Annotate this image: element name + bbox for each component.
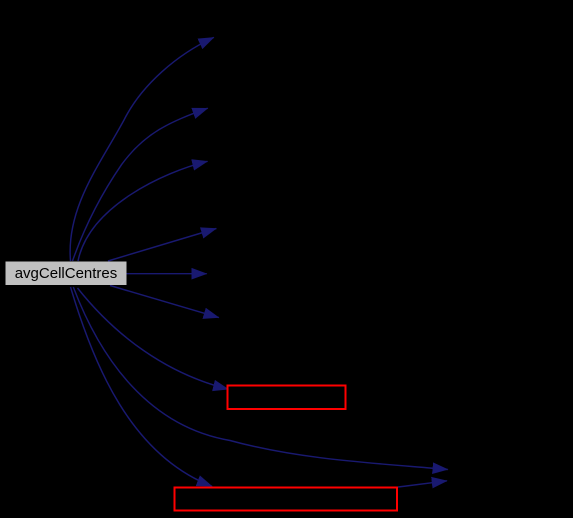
node avgCellCentres (grey box): [6, 262, 127, 286]
edge avgCellCentres -> red box 1: [78, 288, 229, 389]
svg-text:avgCellCentres: avgCellCentres: [15, 265, 118, 282]
edge avgCellCentres -> far-right node (long sweep): [73, 287, 448, 470]
edge avgCellCentres -> node3: [78, 161, 208, 261]
node red box 1 (truncated node): [228, 386, 346, 410]
edge avgCellCentres -> node1 (top): [70, 37, 214, 261]
edge avgCellCentres -> node4: [108, 229, 216, 262]
edge avgCellCentres -> red box 2: [71, 287, 213, 486]
edge avgCellCentres -> node6: [110, 286, 219, 318]
node red box 2 (truncated node): [175, 488, 398, 511]
edge avgCellCentres -> node2: [73, 108, 208, 261]
edge avgCellCentres -> node5 (horizontal): [127, 273, 207, 275]
edge red box 2 -> far-right node: [398, 481, 447, 487]
